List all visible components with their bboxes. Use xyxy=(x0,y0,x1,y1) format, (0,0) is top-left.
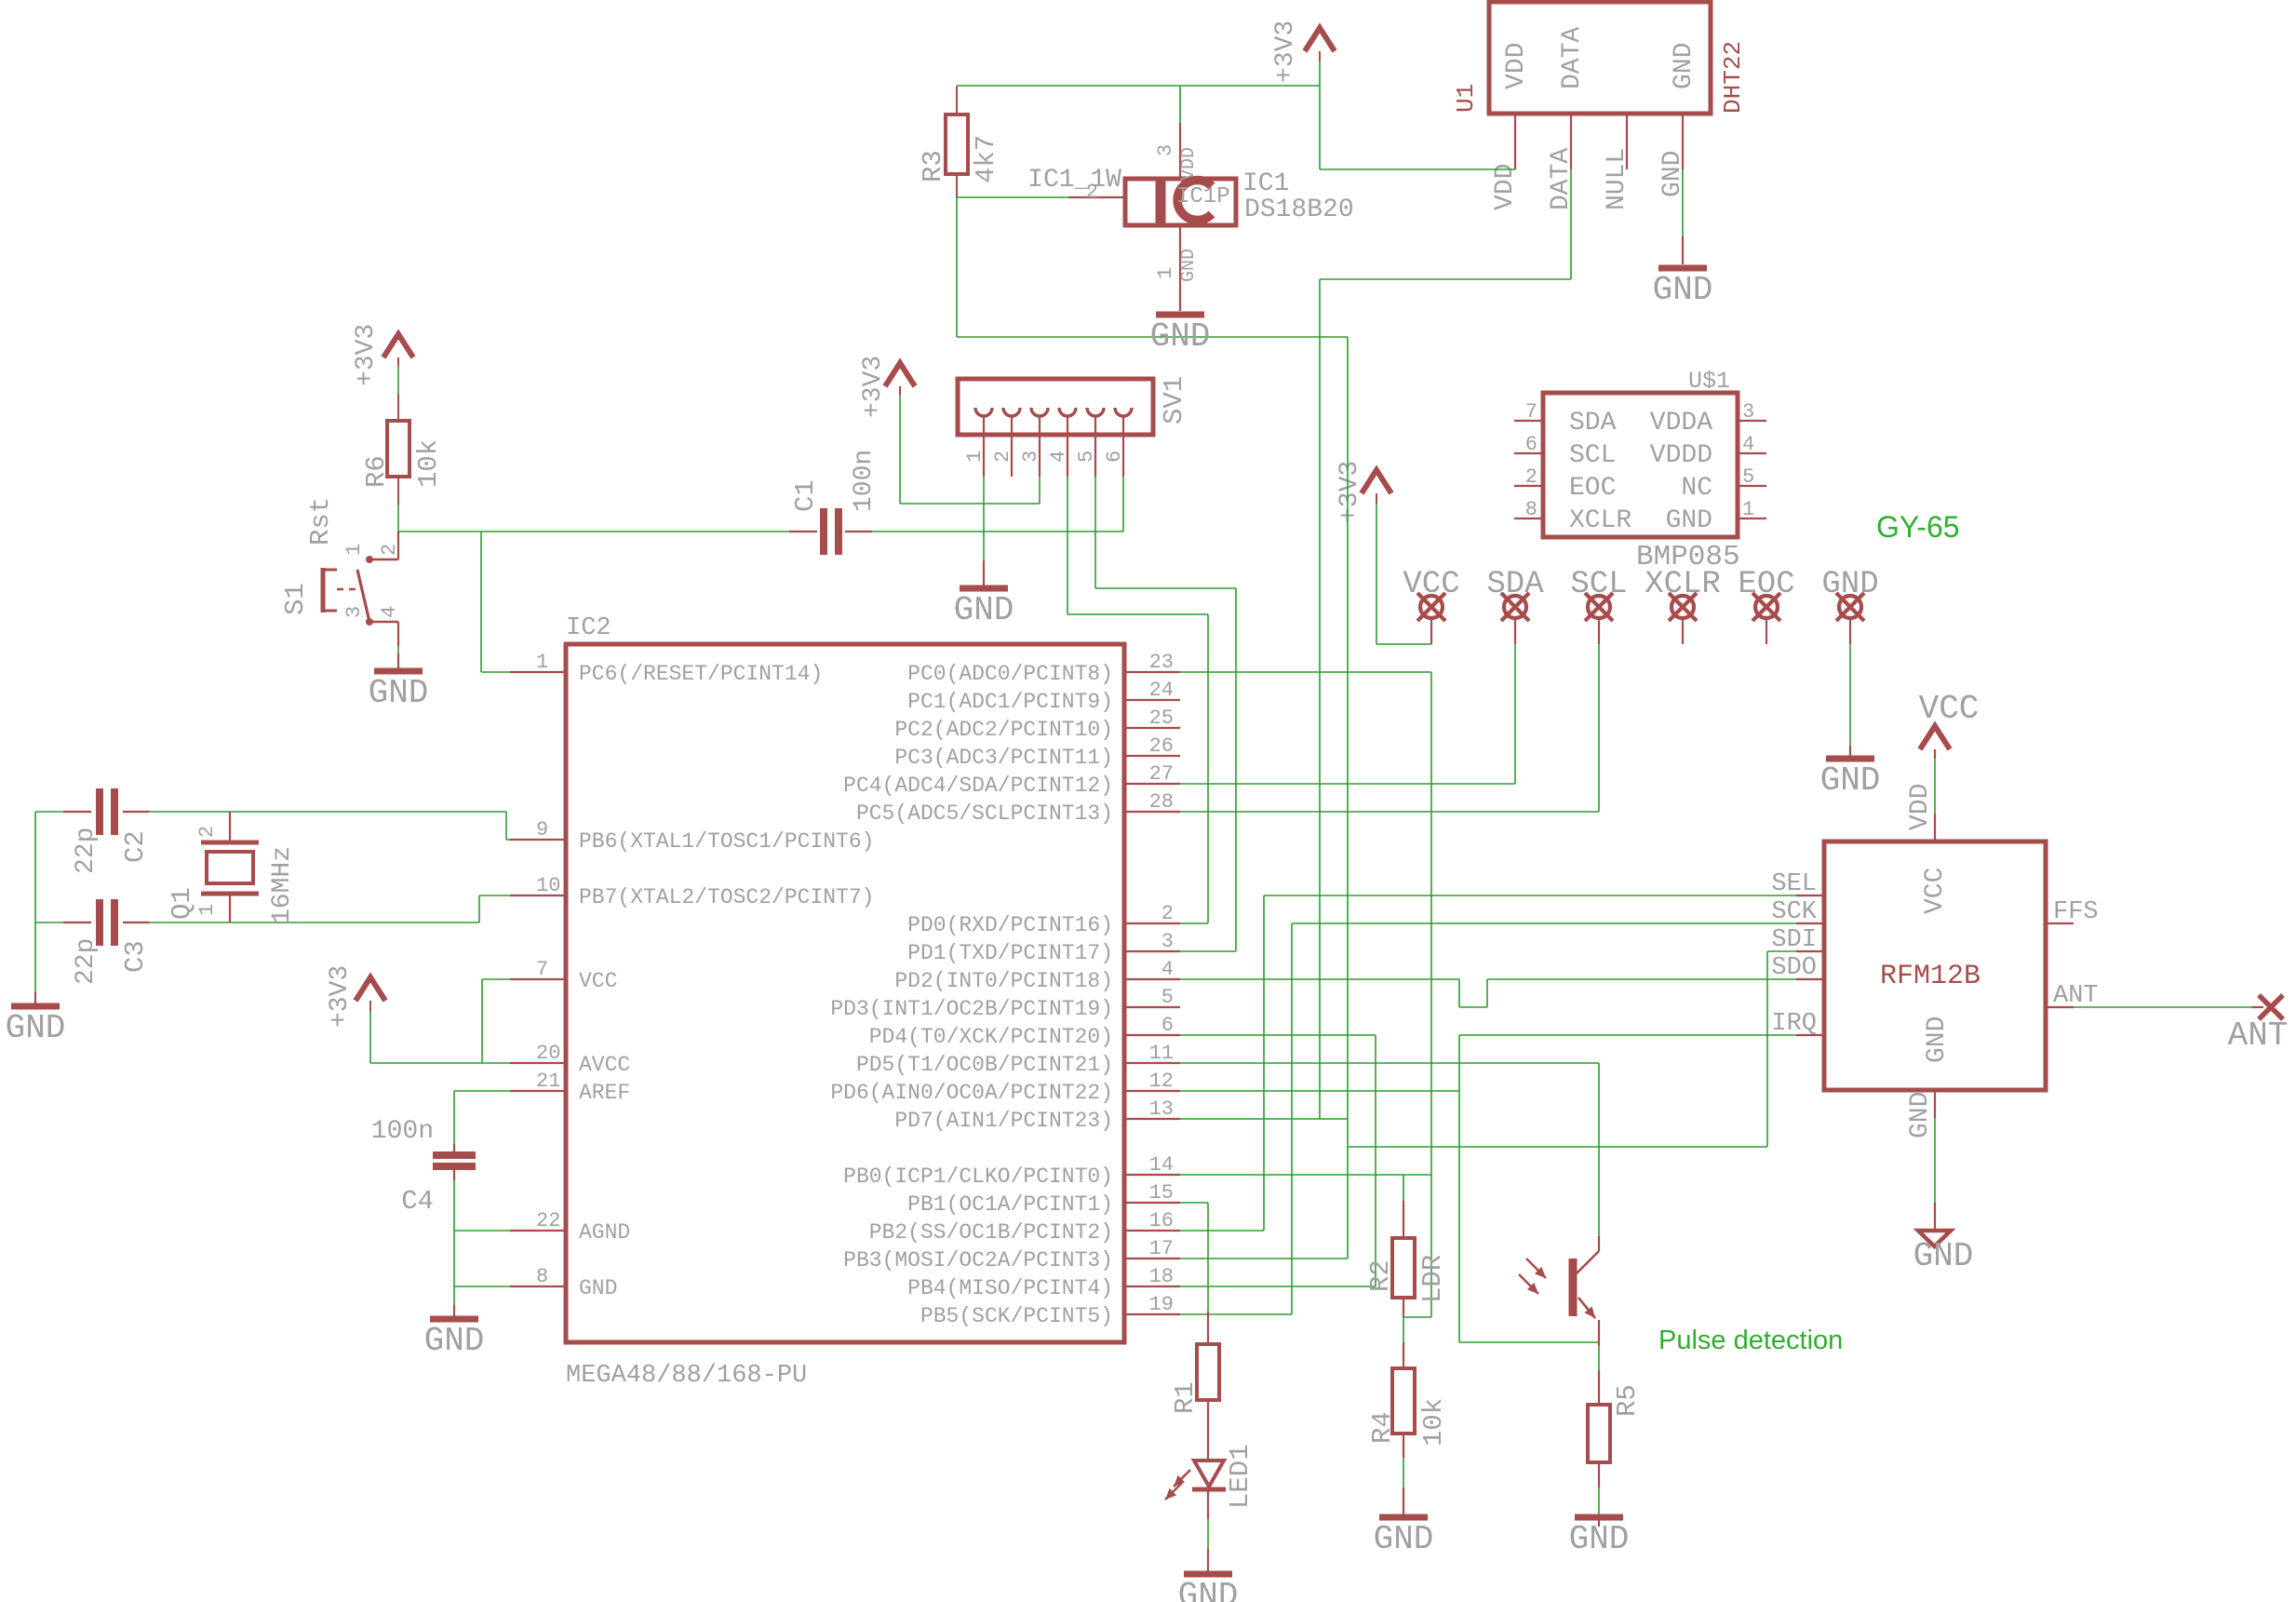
svg-text:8: 8 xyxy=(536,1265,548,1288)
svg-text:PC1(ADC1/PCINT9): PC1(ADC1/PCINT9) xyxy=(907,690,1113,714)
svg-text:PB7(XTAL2/TOSC2/PCINT7): PB7(XTAL2/TOSC2/PCINT7) xyxy=(579,885,874,909)
svg-text:7: 7 xyxy=(536,958,548,981)
svg-text:VDDA: VDDA xyxy=(1650,409,1712,438)
svg-text:PB6(XTAL1/TOSC1/PCINT6): PB6(XTAL1/TOSC1/PCINT6) xyxy=(579,829,874,854)
svg-text:6: 6 xyxy=(1161,1014,1174,1037)
svg-text:1: 1 xyxy=(963,451,987,463)
svg-text:U1: U1 xyxy=(1452,84,1480,113)
svg-text:2: 2 xyxy=(378,544,401,556)
svg-text:VDD: VDD xyxy=(1491,164,1520,210)
svg-text:PB1(OC1A/PCINT1): PB1(OC1A/PCINT1) xyxy=(907,1192,1113,1217)
svg-text:GND: GND xyxy=(1178,1577,1239,1602)
svg-text:GND: GND xyxy=(369,674,429,712)
svg-text:12: 12 xyxy=(1149,1070,1174,1093)
svg-text:4: 4 xyxy=(1161,958,1174,981)
svg-text:PC0(ADC0/PCINT8): PC0(ADC0/PCINT8) xyxy=(907,662,1113,686)
svg-text:GND: GND xyxy=(1653,271,1713,309)
svg-text:VDD: VDD xyxy=(1178,147,1200,181)
svg-text:SCL: SCL xyxy=(1569,441,1616,470)
svg-text:11: 11 xyxy=(1149,1042,1174,1065)
svg-text:R1: R1 xyxy=(1170,1381,1201,1414)
svg-text:DS18B20: DS18B20 xyxy=(1244,195,1354,224)
svg-text:GND: GND xyxy=(1666,506,1712,535)
svg-text:SDI: SDI xyxy=(1771,926,1817,954)
svg-text:U$1: U$1 xyxy=(1688,368,1730,395)
svg-text:3: 3 xyxy=(342,606,366,618)
svg-text:AREF: AREF xyxy=(579,1081,630,1105)
svg-text:+3V3: +3V3 xyxy=(859,356,888,418)
svg-text:100n: 100n xyxy=(850,450,879,512)
svg-text:NULL: NULL xyxy=(1603,148,1631,210)
svg-text:22p: 22p xyxy=(72,938,101,985)
svg-text:4: 4 xyxy=(1047,451,1070,463)
svg-text:R4: R4 xyxy=(1367,1411,1398,1444)
svg-text:100n: 100n xyxy=(371,1117,434,1146)
svg-text:3: 3 xyxy=(1742,400,1754,424)
svg-text:VCC: VCC xyxy=(579,969,617,993)
svg-text:IC1_1W: IC1_1W xyxy=(1027,166,1121,195)
svg-text:DHT22: DHT22 xyxy=(1719,41,1747,114)
svg-text:PD2(INT0/PCINT18): PD2(INT0/PCINT18) xyxy=(894,969,1113,993)
svg-text:18: 18 xyxy=(1149,1265,1174,1288)
svg-text:AVCC: AVCC xyxy=(579,1053,630,1077)
svg-text:15: 15 xyxy=(1149,1181,1174,1205)
svg-text:4k7: 4k7 xyxy=(971,135,1001,183)
svg-text:GND: GND xyxy=(6,1009,66,1047)
svg-text:5: 5 xyxy=(1075,451,1098,463)
svg-text:PD4(T0/XCK/PCINT20): PD4(T0/XCK/PCINT20) xyxy=(869,1025,1113,1049)
svg-text:PC6(/RESET/PCINT14): PC6(/RESET/PCINT14) xyxy=(579,662,823,686)
svg-text:AGND: AGND xyxy=(579,1220,630,1245)
svg-text:1: 1 xyxy=(1154,267,1177,279)
svg-text:GND: GND xyxy=(1178,249,1200,282)
svg-text:1: 1 xyxy=(536,651,548,674)
svg-text:PD1(TXD/PCINT17): PD1(TXD/PCINT17) xyxy=(907,941,1113,965)
svg-text:ANT: ANT xyxy=(2228,1016,2289,1055)
svg-text:C3: C3 xyxy=(120,940,151,973)
svg-text:17: 17 xyxy=(1149,1237,1174,1260)
svg-text:GND: GND xyxy=(1906,1092,1935,1138)
svg-text:VDD: VDD xyxy=(1502,43,1531,89)
svg-text:4: 4 xyxy=(1742,433,1754,456)
svg-text:7: 7 xyxy=(1525,400,1537,424)
svg-text:SDO: SDO xyxy=(1771,954,1817,982)
svg-text:16MHz: 16MHz xyxy=(268,846,297,924)
svg-text:RFM12B: RFM12B xyxy=(1880,961,1980,992)
svg-text:PD6(AIN0/OC0A/PCINT22): PD6(AIN0/OC0A/PCINT22) xyxy=(830,1081,1113,1105)
svg-text:9: 9 xyxy=(536,818,548,841)
svg-text:PB0(ICP1/CLKO/PCINT0): PB0(ICP1/CLKO/PCINT0) xyxy=(843,1164,1113,1189)
svg-text:GND: GND xyxy=(1374,1520,1434,1558)
svg-text:GND: GND xyxy=(1569,1520,1630,1558)
svg-text:R6: R6 xyxy=(361,455,392,488)
svg-text:R3: R3 xyxy=(918,150,948,182)
svg-text:PC3(ADC3/PCINT11): PC3(ADC3/PCINT11) xyxy=(894,746,1113,770)
svg-text:VDD: VDD xyxy=(1906,784,1935,830)
svg-text:3: 3 xyxy=(1154,144,1177,156)
svg-text:PB5(SCK/PCINT5): PB5(SCK/PCINT5) xyxy=(920,1304,1113,1328)
svg-text:PB2(SS/OC1B/PCINT2): PB2(SS/OC1B/PCINT2) xyxy=(869,1220,1113,1245)
svg-text:16: 16 xyxy=(1149,1209,1174,1232)
svg-text:21: 21 xyxy=(536,1070,560,1093)
svg-text:22: 22 xyxy=(536,1209,560,1232)
svg-text:IRQ: IRQ xyxy=(1771,1010,1817,1038)
svg-text:GND: GND xyxy=(579,1276,617,1300)
svg-text:+3V3: +3V3 xyxy=(1271,20,1300,83)
svg-text:LED1: LED1 xyxy=(1225,1444,1255,1509)
svg-text:1: 1 xyxy=(1742,498,1754,521)
svg-text:10k: 10k xyxy=(413,439,444,488)
svg-text:GND: GND xyxy=(954,591,1014,629)
svg-text:GY-65: GY-65 xyxy=(1876,510,1960,544)
svg-text:GND: GND xyxy=(1913,1237,1974,1275)
svg-text:GND: GND xyxy=(1150,317,1211,356)
svg-text:SEL: SEL xyxy=(1771,870,1817,898)
svg-text:24: 24 xyxy=(1149,679,1174,702)
svg-text:VCC: VCC xyxy=(1921,868,1950,914)
svg-text:LDR: LDR xyxy=(1417,1255,1448,1303)
svg-text:Q1: Q1 xyxy=(167,887,197,920)
svg-text:+3V3: +3V3 xyxy=(326,965,355,1028)
svg-text:EOC: EOC xyxy=(1569,474,1616,503)
svg-text:S1: S1 xyxy=(280,583,311,615)
svg-text:PD3(INT1/OC2B/PCINT19): PD3(INT1/OC2B/PCINT19) xyxy=(830,997,1113,1021)
svg-text:3: 3 xyxy=(1019,451,1042,463)
svg-text:XCLR: XCLR xyxy=(1569,506,1631,535)
svg-text:PD0(RXD/PCINT16): PD0(RXD/PCINT16) xyxy=(907,913,1113,937)
svg-text:2: 2 xyxy=(195,826,219,838)
svg-text:20: 20 xyxy=(536,1042,560,1065)
svg-text:10: 10 xyxy=(536,874,560,897)
svg-text:PC4(ADC4/SDA/PCINT12): PC4(ADC4/SDA/PCINT12) xyxy=(843,774,1113,798)
svg-text:PC5(ADC5/SCLPCINT13): PC5(ADC5/SCLPCINT13) xyxy=(856,801,1113,826)
svg-text:23: 23 xyxy=(1149,651,1174,674)
svg-text:ANT: ANT xyxy=(2053,982,2099,1010)
svg-text:IC1P: IC1P xyxy=(1176,184,1230,209)
svg-text:SV1: SV1 xyxy=(1159,376,1189,424)
svg-text:8: 8 xyxy=(1525,498,1537,521)
svg-text:+3V3: +3V3 xyxy=(352,324,381,386)
svg-text:MEGA48/88/168-PU: MEGA48/88/168-PU xyxy=(566,1362,807,1390)
svg-text:2: 2 xyxy=(1525,465,1537,489)
svg-text:DATA: DATA xyxy=(1558,27,1587,89)
svg-text:3: 3 xyxy=(1161,930,1174,953)
svg-text:NC: NC xyxy=(1681,474,1712,503)
svg-text:IC1: IC1 xyxy=(1242,169,1289,198)
svg-text:PB4(MISO/PCINT4): PB4(MISO/PCINT4) xyxy=(907,1276,1113,1300)
svg-text:Pulse detection: Pulse detection xyxy=(1658,1326,1843,1355)
svg-text:+3V3: +3V3 xyxy=(1336,461,1364,523)
svg-text:SCK: SCK xyxy=(1771,898,1817,926)
svg-text:25: 25 xyxy=(1149,707,1174,730)
svg-text:26: 26 xyxy=(1149,734,1174,758)
svg-text:2: 2 xyxy=(1161,902,1174,925)
svg-text:28: 28 xyxy=(1149,790,1174,814)
svg-text:GND: GND xyxy=(1670,43,1699,89)
svg-text:PD7(AIN1/PCINT23): PD7(AIN1/PCINT23) xyxy=(894,1109,1113,1133)
svg-text:5: 5 xyxy=(1742,465,1754,489)
svg-text:6: 6 xyxy=(1103,451,1126,463)
svg-text:2: 2 xyxy=(991,451,1014,463)
svg-text:1: 1 xyxy=(195,904,219,916)
svg-text:C4: C4 xyxy=(401,1186,434,1217)
svg-text:PB3(MOSI/OC2A/PCINT3): PB3(MOSI/OC2A/PCINT3) xyxy=(843,1248,1113,1272)
svg-text:10k: 10k xyxy=(1418,1398,1449,1447)
svg-text:2: 2 xyxy=(1086,181,1098,204)
svg-text:VDDD: VDDD xyxy=(1650,441,1712,470)
svg-text:C2: C2 xyxy=(120,830,151,863)
svg-text:R5: R5 xyxy=(1612,1384,1643,1417)
svg-text:Rst: Rst xyxy=(305,497,336,545)
svg-text:27: 27 xyxy=(1149,762,1174,786)
svg-text:VCC: VCC xyxy=(1919,690,1980,728)
svg-text:IC2: IC2 xyxy=(566,614,611,642)
svg-text:PD5(T1/OC0B/PCINT21): PD5(T1/OC0B/PCINT21) xyxy=(856,1053,1113,1077)
svg-text:6: 6 xyxy=(1525,433,1537,456)
svg-text:22p: 22p xyxy=(72,828,101,874)
svg-text:GND: GND xyxy=(1820,761,1881,800)
svg-text:14: 14 xyxy=(1149,1153,1174,1177)
svg-text:C1: C1 xyxy=(790,479,821,512)
svg-text:GND: GND xyxy=(1923,1016,1952,1063)
svg-text:13: 13 xyxy=(1149,1097,1174,1121)
svg-text:GND: GND xyxy=(424,1322,485,1360)
svg-text:19: 19 xyxy=(1149,1293,1174,1316)
svg-text:1: 1 xyxy=(342,544,366,556)
svg-text:FFS: FFS xyxy=(2053,898,2099,926)
svg-text:5: 5 xyxy=(1161,986,1174,1009)
svg-text:4: 4 xyxy=(378,606,401,618)
svg-text:SDA: SDA xyxy=(1569,409,1617,438)
svg-text:R2: R2 xyxy=(1365,1259,1396,1292)
svg-text:PC2(ADC2/PCINT10): PC2(ADC2/PCINT10) xyxy=(894,718,1113,742)
